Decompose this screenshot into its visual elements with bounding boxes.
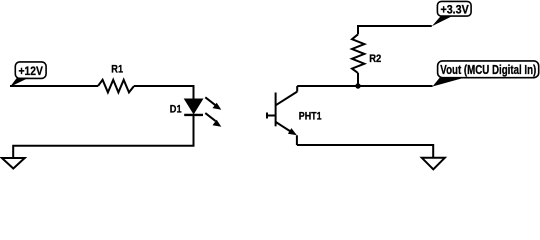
wire R1 to D1 corner <box>134 86 194 99</box>
ground (right) <box>422 158 445 170</box>
svg-text:+12V: +12V <box>19 64 44 78</box>
svg-text:R2: R2 <box>369 53 381 65</box>
phototransistor PHT1 <box>267 86 322 145</box>
wire collector net (PHT1 to Vout) <box>297 85 432 87</box>
svg-text:+3.3V: +3.3V <box>440 3 468 17</box>
svg-text:Vout (MCU Digital In): Vout (MCU Digital In) <box>440 63 536 77</box>
wire D1 to ground <box>13 115 193 158</box>
wire +12V to R1 <box>10 85 98 87</box>
net flag +12V <box>10 62 46 87</box>
wire R2 to junction <box>357 73 359 86</box>
wire emitter to ground <box>297 145 433 158</box>
svg-text:PHT1: PHT1 <box>299 111 322 123</box>
LED D1 <box>170 97 222 127</box>
net flag Vout (MCU Digital In) <box>433 61 539 87</box>
resistor R1 <box>98 63 134 92</box>
svg-text:R1: R1 <box>111 63 123 75</box>
net flag +3.3V <box>432 1 471 26</box>
svg-text:D1: D1 <box>170 103 182 115</box>
ground (left) <box>2 158 25 169</box>
junction node <box>355 83 360 88</box>
resistor R2 <box>352 34 381 73</box>
wire +3.3V to R2 <box>358 26 432 34</box>
